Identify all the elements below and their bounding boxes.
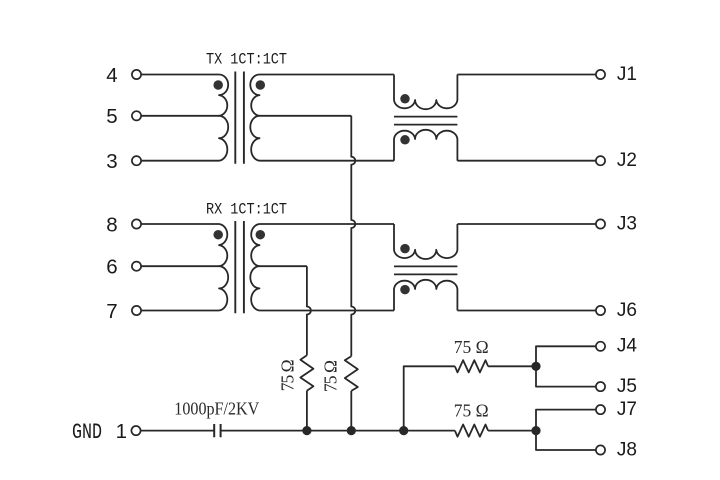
terminal J4 (596, 342, 605, 351)
wire RX secondary bottom to choke L2 (260, 310, 395, 312)
transformer T2 secondary phase dot (256, 230, 266, 240)
choke L2 bottom phase dot (400, 285, 410, 295)
svg-text:4: 4 (106, 64, 117, 87)
wire choke L2 to J3 (457, 223, 596, 225)
transformer T2 core (235, 221, 244, 313)
choke L2 top winding (394, 224, 457, 259)
terminal J1 (596, 70, 605, 79)
wire TX tap drop with hops (351, 116, 355, 356)
transformer T1 primary phase dot (213, 80, 223, 90)
transformer T1 core (235, 72, 244, 164)
svg-text:75 Ω: 75 Ω (454, 401, 489, 421)
svg-text:8: 8 (106, 213, 117, 236)
resistor R2 75ohm vertical zigzag (345, 356, 358, 391)
pin 6 terminal (132, 262, 141, 271)
junction node J4/J5 branch (531, 362, 540, 371)
wire pin8 to RX primary top (141, 223, 219, 225)
pin 7 terminal (132, 306, 141, 315)
terminal J7 (596, 405, 605, 414)
wire TX secondary bottom to choke L1 (260, 160, 395, 162)
junction node R1/bus (302, 426, 311, 435)
transformer T2 primary phase dot (213, 230, 223, 240)
junction node J7/J8 branch/bus (531, 426, 540, 435)
pin 8 terminal (132, 219, 141, 228)
choke L1 top phase dot (400, 94, 410, 104)
terminal J8 (596, 445, 605, 454)
terminal J6 (596, 306, 605, 315)
transformer T1 TX secondary winding (250, 75, 259, 161)
svg-text:3: 3 (106, 150, 117, 173)
transformer T1 secondary phase dot (256, 80, 266, 90)
svg-text:1000pF/2KV: 1000pF/2KV (174, 398, 259, 418)
svg-text:J5: J5 (617, 376, 637, 397)
wire node to J7 (536, 410, 596, 431)
pin 5 terminal (132, 111, 141, 120)
choke L1 bottom winding (394, 130, 457, 161)
capacitor C1 1000pF/2KV plates (214, 424, 220, 437)
wire R1 to GND bus (306, 391, 308, 431)
wire RX tap drop with hop (307, 266, 311, 355)
svg-text:J3: J3 (617, 213, 637, 234)
wire TX secondary center tap to node (260, 115, 352, 117)
svg-text:GND: GND (72, 420, 102, 445)
choke L2 bottom winding (394, 280, 457, 311)
junction node R3 branch/bus (399, 426, 408, 435)
transformer T2 RX primary winding (219, 224, 228, 311)
svg-text:J7: J7 (617, 399, 637, 420)
wire pin6 to RX primary center tap (141, 265, 219, 267)
choke L2 top phase dot (400, 244, 410, 254)
wire R3 to node (488, 365, 536, 367)
svg-text:1: 1 (116, 420, 127, 443)
wire choke L2 to J6 (457, 310, 596, 312)
wire RX secondary top to choke L2 (260, 223, 395, 225)
pin 3 terminal (132, 156, 141, 165)
wire RX secondary center tap to node (260, 265, 307, 267)
junction node R2/bus (347, 426, 356, 435)
wire R2 to GND bus (350, 391, 352, 431)
svg-text:TX 1CT:1CT: TX 1CT:1CT (206, 51, 287, 69)
wire bus node up to R3 (404, 366, 455, 430)
wire pin7 to RX primary bottom (141, 310, 219, 312)
terminal J3 (596, 219, 605, 228)
svg-text:J6: J6 (617, 300, 637, 321)
resistor R1 75ohm vertical zigzag (300, 355, 313, 390)
wire choke L1 to J2 (457, 160, 596, 162)
choke L1 top winding (394, 75, 457, 110)
wire pin4 to TX primary top (141, 74, 219, 76)
wire pin3 to TX primary bottom (141, 160, 219, 162)
transformer T2 RX secondary winding (250, 224, 259, 311)
wire node to J4 (536, 346, 596, 366)
terminal J5 (596, 382, 605, 391)
GND bus wire (221, 430, 455, 432)
pin 4 terminal (132, 70, 141, 79)
wire R4 to node (488, 430, 536, 432)
wire pin5 to TX primary center tap (141, 115, 219, 117)
wire node to J8 (536, 431, 596, 450)
wire TX secondary top to choke L1 (260, 74, 395, 76)
svg-text:6: 6 (106, 256, 117, 279)
svg-text:J4: J4 (617, 336, 638, 357)
svg-text:J8: J8 (617, 439, 637, 460)
resistor R4 75ohm zigzag (455, 425, 488, 437)
svg-text:J1: J1 (617, 64, 637, 85)
resistor R3 75ohm zigzag (455, 360, 488, 372)
svg-text:75 Ω: 75 Ω (454, 337, 489, 357)
svg-text:75 Ω: 75 Ω (320, 360, 340, 392)
svg-text:RX 1CT:1CT: RX 1CT:1CT (206, 201, 287, 219)
wire node to J5 (536, 366, 596, 386)
choke L1 bottom phase dot (400, 135, 410, 145)
transformer T1 TX primary winding (219, 75, 228, 161)
terminal J2 (596, 156, 605, 165)
svg-text:7: 7 (106, 300, 117, 323)
wire choke L1 to J1 (457, 74, 596, 76)
svg-text:5: 5 (106, 105, 117, 128)
choke L1 core (394, 117, 457, 125)
svg-text:J2: J2 (617, 150, 637, 171)
GND pin 1 terminal (131, 426, 140, 435)
svg-text:75 Ω: 75 Ω (277, 359, 297, 391)
choke L2 core (394, 266, 457, 274)
wire GND to capacitor C1 (141, 430, 214, 432)
